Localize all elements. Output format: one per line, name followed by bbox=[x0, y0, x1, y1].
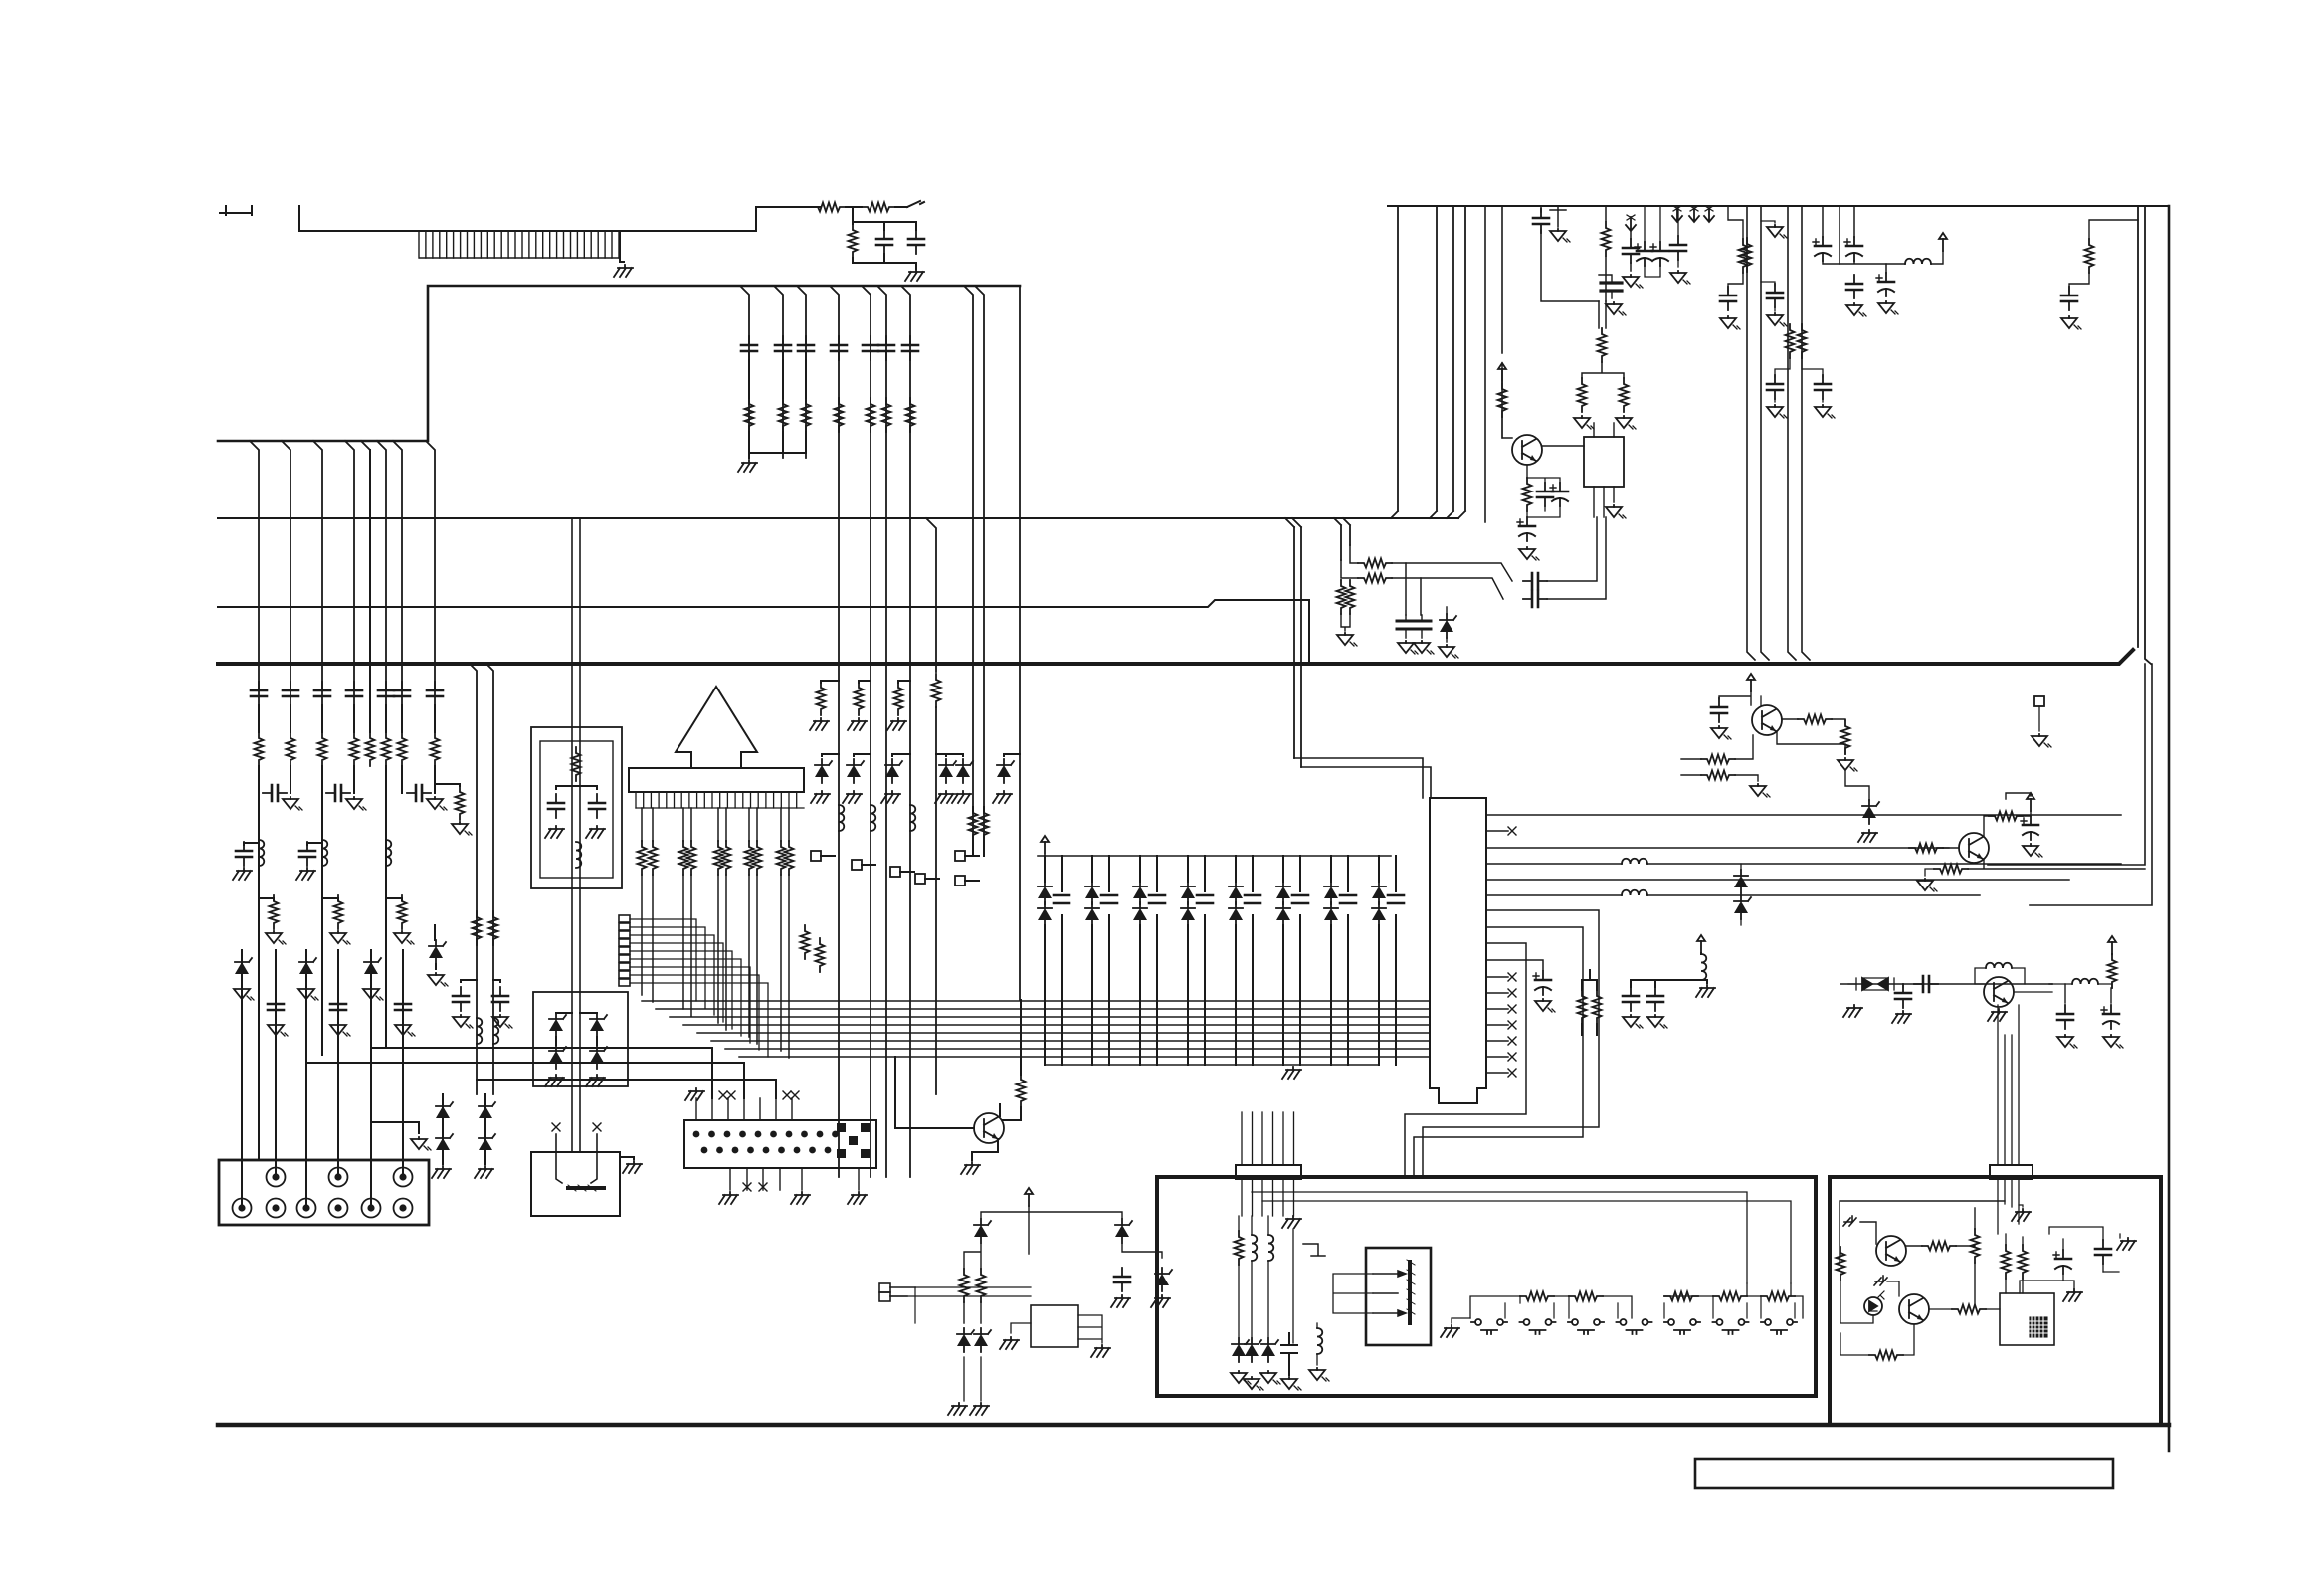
IC701 bbox=[1031, 1305, 1078, 1347]
diode col 6 bbox=[1282, 856, 1284, 1065]
ground GA D520 bbox=[1439, 645, 1458, 658]
BR rail bbox=[1840, 983, 2052, 985]
inductor L501 bbox=[1905, 259, 1931, 264]
wire colpair 1 bbox=[259, 766, 290, 793]
zener D201 bbox=[549, 1013, 566, 1037]
ground GA R604 bbox=[1750, 784, 1770, 797]
wire stub R123 bbox=[435, 784, 460, 786]
resistor R520 bbox=[1358, 559, 1392, 568]
capacitor C162 bbox=[878, 336, 894, 360]
diode D302a bbox=[1133, 881, 1147, 904]
capacitor C152 bbox=[798, 336, 814, 360]
capacitor C161 bbox=[863, 336, 878, 360]
zener D402 bbox=[1734, 895, 1751, 919]
inductor L105 bbox=[493, 1018, 498, 1044]
filter row1 bbox=[1350, 545, 1358, 563]
diode col 2 bbox=[1091, 856, 1093, 1065]
IC401 pin 7 bbox=[1423, 910, 1599, 1177]
resistor R185 bbox=[722, 841, 731, 875]
diode D303a bbox=[1181, 881, 1195, 904]
capacitor C603 bbox=[1895, 984, 1911, 1008]
switch S306 bbox=[1713, 1319, 1749, 1334]
diode D304a bbox=[1229, 881, 1243, 904]
resistor R150 bbox=[745, 398, 754, 432]
clusterA 1687 bbox=[1677, 206, 1679, 267]
D401 wires bbox=[1740, 864, 1742, 925]
capacitor C503 polarized bbox=[1635, 242, 1652, 266]
resistor R522 bbox=[1337, 580, 1346, 614]
ground GA zener 308 bbox=[298, 987, 318, 1000]
capacitor C126 bbox=[492, 987, 508, 1011]
zener D150 bbox=[436, 1132, 453, 1156]
filter row1b bbox=[1392, 563, 1512, 581]
wire thickline drop 496 bbox=[486, 664, 493, 1094]
resistor R307 bbox=[2019, 1245, 2028, 1279]
ground GA7 bbox=[394, 931, 414, 944]
L601 wires bbox=[1975, 968, 2052, 992]
wire stub C123 bbox=[244, 843, 259, 845]
ground chassis C124 bbox=[296, 868, 315, 880]
Q201 coll join bbox=[1003, 1107, 1021, 1120]
wire cap col 340 bbox=[337, 950, 339, 1177]
wire node A drop bbox=[853, 207, 916, 222]
bus net V1b bbox=[1334, 518, 1350, 560]
IC401 nc pin 4 bbox=[1486, 1040, 1508, 1042]
bus mid column drops B bbox=[831, 287, 910, 1177]
resistor R182 bbox=[679, 841, 688, 875]
cap stub 8 bbox=[1395, 856, 1397, 1065]
resistor R402 bbox=[1593, 990, 1602, 1024]
resistor R312 bbox=[1664, 1292, 1698, 1301]
capacitor C111 bbox=[283, 682, 298, 705]
zener D141 bbox=[479, 1100, 495, 1124]
capacitor C601 bbox=[1711, 698, 1727, 722]
ground chassis z897 bbox=[881, 791, 900, 803]
diode D306b bbox=[1324, 902, 1338, 926]
ground GA1 bbox=[283, 797, 302, 810]
zener D165 bbox=[997, 759, 1014, 783]
arrow nc b bbox=[1689, 206, 1699, 222]
ground chassis D704 bbox=[948, 1403, 967, 1415]
ground GA C502 bbox=[1623, 275, 1643, 288]
ground chassis D705 bbox=[970, 1403, 989, 1415]
ground chassis CN302 bbox=[2012, 1209, 2031, 1221]
zener D163 bbox=[939, 759, 956, 783]
diode box stubs bbox=[556, 1013, 597, 1045]
capacitor C511 bbox=[1767, 284, 1783, 307]
wire stub C125 bbox=[461, 980, 477, 982]
mechanism box1 bbox=[1157, 1177, 1816, 1396]
capacitor C130 bbox=[268, 995, 284, 1019]
resistor R161 bbox=[867, 398, 875, 432]
ground GA R607 bbox=[1917, 879, 1937, 891]
bus net V1 y=521 bbox=[218, 517, 1458, 519]
capacitor C125 bbox=[453, 987, 469, 1011]
connector J101 RCA block bbox=[219, 1160, 429, 1225]
Q301 wires bbox=[1840, 1201, 2005, 1262]
capacitor C304 bbox=[1245, 895, 1260, 903]
record head symbol bbox=[1373, 1260, 1415, 1323]
resistor R187 bbox=[753, 841, 762, 875]
capacitor C501 bbox=[1533, 209, 1549, 233]
zener D703 bbox=[1155, 1268, 1172, 1291]
capacitor C301 bbox=[1101, 895, 1117, 903]
switch S303 bbox=[1568, 1319, 1604, 1334]
ground GA C610 bbox=[2057, 1035, 2077, 1048]
connector CN101 comb bbox=[419, 230, 620, 232]
capacitor C114 bbox=[378, 682, 394, 705]
L602 net wires bbox=[2049, 984, 2111, 1003]
resistor R127 bbox=[473, 911, 482, 945]
keypad matrix box bbox=[684, 1120, 876, 1168]
ground chassis D703 bbox=[1151, 1295, 1170, 1307]
capacitor C151 bbox=[775, 336, 791, 360]
diode row bottom rail bbox=[1045, 1064, 1379, 1066]
capacitor C516 bbox=[1846, 275, 1862, 298]
resistor R172 bbox=[894, 682, 903, 715]
ground chassis head bbox=[623, 1161, 642, 1173]
capacitor C115 bbox=[394, 682, 410, 705]
harness lines bbox=[642, 1001, 1430, 1057]
ground chassis z858 bbox=[843, 791, 862, 803]
nested return 2 bbox=[2030, 664, 2152, 905]
resistor R304 bbox=[1837, 1247, 1845, 1280]
capacitor C504 polarized bbox=[1650, 242, 1668, 266]
tape head symbol bbox=[556, 1134, 604, 1191]
x-mark nc1 bbox=[719, 1091, 727, 1099]
ground GA R504 bbox=[1616, 416, 1636, 429]
IC401 nc pin 3 bbox=[1486, 1024, 1508, 1026]
x-mark nc6 bbox=[759, 1183, 767, 1191]
resistor R113 bbox=[350, 732, 359, 766]
IC201 pins bbox=[636, 792, 797, 808]
resistor R115 bbox=[382, 732, 391, 766]
cap stub 3 bbox=[1156, 856, 1158, 1065]
wire jack col 373 bbox=[370, 950, 372, 1208]
resistor R192 bbox=[1017, 1074, 1026, 1107]
ground chassis keypad B2 bbox=[791, 1192, 810, 1204]
keypad pins bottom bbox=[730, 1168, 859, 1190]
small ckt wires3 bbox=[964, 1244, 981, 1323]
ground GA C501t bbox=[1550, 229, 1570, 242]
ground chassis keypad B1 bbox=[719, 1192, 738, 1204]
ground GA zener 373 bbox=[363, 987, 383, 1000]
RCA jack bottom 2 bbox=[267, 1199, 286, 1218]
x-mark nc1 bbox=[1508, 989, 1516, 997]
IC401 nc pin 0 bbox=[1486, 976, 1508, 978]
ground GA R503 bbox=[1574, 416, 1594, 429]
x-mark nc5 bbox=[1508, 1053, 1516, 1061]
ground GA C401 bbox=[1535, 999, 1555, 1012]
ground GA3 bbox=[427, 797, 447, 810]
test point TP1 bbox=[811, 851, 821, 861]
IC501 wires bbox=[1594, 423, 1614, 517]
ground chassis IC701b bbox=[1000, 1337, 1019, 1349]
wire pair 978 cont bbox=[973, 807, 984, 856]
wire route 3 bbox=[477, 1080, 776, 1098]
resistor R201 bbox=[572, 747, 581, 781]
D601 wires bbox=[1845, 771, 1869, 800]
trap cap stubs bbox=[556, 786, 597, 789]
tape head box bbox=[531, 1152, 620, 1216]
harness left bends bbox=[642, 875, 739, 1057]
clusterA down pair bbox=[1599, 301, 1606, 328]
resistor R501 bbox=[1602, 222, 1611, 256]
capacitor C514 polarized bbox=[1813, 237, 1831, 261]
capacitor C602 polarized bbox=[2021, 816, 2038, 840]
ground GA C516 bbox=[1846, 303, 1866, 316]
ground chassis CN301 bbox=[1282, 1216, 1301, 1228]
IC401 pin 3 bbox=[1486, 847, 1949, 849]
IC401 pin 10 bbox=[1486, 960, 1543, 970]
resistor R186 bbox=[745, 841, 754, 875]
zener D133 bbox=[429, 940, 446, 964]
x-mark nc3 bbox=[1508, 1021, 1516, 1029]
Q201 base wire bbox=[895, 1057, 974, 1128]
clusterA down2 bbox=[1582, 362, 1624, 378]
ground chassis C201 bbox=[545, 826, 564, 838]
diode D305a bbox=[1276, 881, 1290, 904]
Q201 emitter bbox=[972, 1139, 998, 1160]
IC401 pin 1 bbox=[1486, 814, 2121, 816]
TP6 lead bbox=[965, 880, 979, 882]
wire stub C126 bbox=[493, 980, 500, 982]
resistor R314 bbox=[1761, 1292, 1795, 1301]
resistor R607 bbox=[1934, 865, 1968, 874]
arrow nc c bbox=[1704, 206, 1714, 222]
C603 wires bbox=[1902, 984, 1904, 987]
capacitor C124 bbox=[299, 842, 315, 866]
diode D401 bbox=[1734, 870, 1748, 893]
resistor R190 bbox=[801, 925, 810, 959]
TP5 lead bbox=[965, 855, 979, 857]
ground chassis ladder bbox=[1441, 1325, 1459, 1337]
ground fork 2 bbox=[1874, 1276, 1887, 1285]
ground chassis colsM bbox=[738, 460, 757, 472]
capacitor C122 bbox=[407, 785, 431, 801]
ground GA C506 bbox=[1606, 302, 1626, 315]
inductor L103 bbox=[386, 840, 391, 866]
inductor L102 bbox=[322, 840, 327, 866]
supply arrow VQ601 bbox=[1747, 674, 1755, 691]
1784 stub bbox=[1761, 221, 1775, 223]
ground chassis z968 bbox=[952, 791, 971, 803]
inductor L402 bbox=[1701, 954, 1706, 980]
supply arrow VD4 bbox=[2108, 936, 2116, 954]
ladder feed B bbox=[1790, 1283, 1792, 1296]
resistor R606 bbox=[1989, 812, 2023, 821]
ground GA C512 bbox=[1767, 405, 1787, 418]
capacitor C303 bbox=[2095, 1240, 2111, 1264]
capacitor C307 bbox=[1388, 895, 1404, 903]
ground GA C522 bbox=[1398, 641, 1418, 654]
small ckt wires2 bbox=[1029, 1212, 1162, 1258]
x-mark nc5 bbox=[743, 1183, 751, 1191]
ground GA C505 bbox=[1670, 271, 1690, 284]
x-mark nc6 bbox=[1508, 1069, 1516, 1077]
zener D520 bbox=[1440, 614, 1456, 638]
inductor Lp4 bbox=[1622, 859, 1647, 864]
ground GA cap 340 bbox=[330, 1023, 350, 1036]
wire stub C124 bbox=[307, 843, 322, 845]
wire stub res 903 bbox=[898, 681, 910, 683]
Q501 e-wires bbox=[1527, 478, 1560, 517]
resistor R180 bbox=[638, 841, 647, 875]
bus mid column drops A bbox=[741, 287, 806, 458]
capacitor C120 bbox=[263, 785, 287, 801]
resistor R603 bbox=[1701, 755, 1735, 764]
wire stub zener 968 bbox=[936, 754, 963, 756]
ground chassis z826 bbox=[811, 791, 830, 803]
capacitor C510 bbox=[1720, 287, 1736, 310]
ground GA cap 277 bbox=[268, 1023, 288, 1036]
resistor R126 bbox=[398, 895, 407, 929]
ground GA D301 bbox=[1231, 1371, 1251, 1384]
wire stub res 825 bbox=[821, 681, 839, 683]
capacitor C102 bbox=[908, 230, 924, 254]
IC701 wires bbox=[1011, 1315, 1102, 1343]
RCA jack top 1 bbox=[267, 1168, 286, 1187]
buffer bar IC201 bbox=[629, 768, 804, 792]
ground hook bbox=[1303, 1244, 1325, 1256]
CN301 route right A bbox=[1252, 1192, 1747, 1283]
capacitor C604 h bbox=[1914, 976, 1938, 992]
zener D164 bbox=[956, 759, 973, 783]
capacitor C101 bbox=[876, 230, 892, 254]
shield box inner bbox=[540, 741, 613, 878]
switch S301 bbox=[1471, 1319, 1507, 1334]
cap stub 6 bbox=[1299, 856, 1301, 1065]
bus net V1 branch bends bbox=[1285, 518, 1301, 527]
CN301 route right B bbox=[1262, 1201, 1791, 1283]
switch S304 bbox=[1617, 1319, 1652, 1334]
wire cap col 277 bbox=[275, 950, 277, 1177]
wire R102-switch bbox=[895, 206, 907, 208]
capacitor C518 bbox=[2061, 287, 2077, 310]
x-mark nc0 bbox=[1508, 973, 1516, 981]
IC401 pin 4 bbox=[1486, 863, 1622, 865]
RCA jack bottom 5 bbox=[362, 1199, 381, 1218]
ground GA C511 bbox=[1767, 313, 1787, 326]
LED D304 bbox=[1864, 1291, 1884, 1315]
diode D300a bbox=[1038, 881, 1052, 904]
Q601 top wires bbox=[1719, 691, 1751, 705]
small ckt rails bbox=[981, 1206, 1029, 1254]
zener D203 bbox=[549, 1045, 566, 1069]
cap stub 2 bbox=[1108, 856, 1110, 1065]
IC401 main processor bbox=[1430, 798, 1486, 1103]
capacitor C116 bbox=[427, 682, 443, 705]
supply arrow VD3 bbox=[1939, 233, 1947, 251]
x-mark nc3 bbox=[783, 1091, 791, 1099]
ladder gnd lead bbox=[1452, 1318, 1470, 1323]
ground chassis C102 bbox=[905, 269, 924, 281]
ground GA9 bbox=[492, 1015, 512, 1028]
switch S305 bbox=[1664, 1319, 1700, 1334]
TP1 lead bbox=[821, 855, 835, 857]
head wires bbox=[1333, 1274, 1373, 1313]
bus corners to top right bbox=[1391, 206, 1465, 518]
trap columns bbox=[572, 518, 580, 1152]
transistor Q501 bbox=[1512, 435, 1542, 465]
filter row1c bbox=[1547, 517, 1597, 581]
cap stub 5 bbox=[1252, 856, 1254, 1065]
title block bbox=[1695, 1459, 2113, 1488]
Q501 emitter down bbox=[1526, 465, 1528, 478]
Q601 emitter down bbox=[1777, 732, 1845, 754]
resistor R511 bbox=[2085, 239, 2094, 273]
bus right pair drop bbox=[965, 287, 984, 856]
diode D305b bbox=[1276, 902, 1290, 926]
IC501 box bbox=[1584, 437, 1624, 487]
capacitor C163 bbox=[902, 336, 918, 360]
ground GA C402 bbox=[1623, 1015, 1643, 1028]
clusterC cols bbox=[1823, 206, 1886, 273]
wire stub zener 951 bbox=[936, 754, 946, 756]
diode D307b bbox=[1372, 902, 1386, 926]
resistor R503 bbox=[1578, 378, 1587, 412]
wire gnd stub bbox=[371, 1122, 419, 1133]
cap stub 7 bbox=[1347, 856, 1349, 1065]
ground chassis BR2 bbox=[1892, 1011, 1911, 1023]
wire R103/C101/C102 bottom bbox=[853, 258, 916, 269]
wire main board outline bbox=[218, 286, 1020, 441]
inductor L108 bbox=[910, 805, 915, 831]
R302 wire bbox=[1956, 1208, 1975, 1246]
inductor L104 bbox=[477, 1018, 482, 1044]
resistor R508 bbox=[1743, 238, 1752, 272]
resistor R308 bbox=[1869, 1351, 1903, 1360]
ground chassis z951 bbox=[935, 791, 954, 803]
supply arrow VQ602 bbox=[2027, 793, 2034, 811]
ground GA C403 bbox=[1647, 1015, 1667, 1028]
Q501 wires bbox=[1502, 363, 1584, 446]
resistor R523 bbox=[1346, 580, 1355, 614]
resistor R305 bbox=[1952, 1305, 1986, 1314]
resistor R605 bbox=[1909, 844, 1943, 853]
Q601 c-wire bbox=[1782, 719, 1845, 720]
Q201 collector bbox=[1000, 1000, 1021, 1116]
zener D202 bbox=[590, 1013, 607, 1037]
resistor R189 bbox=[785, 841, 794, 875]
diode D300b bbox=[1038, 902, 1052, 926]
resistor R114 bbox=[366, 732, 375, 766]
head shield box bbox=[1366, 1248, 1431, 1345]
TR left cols bbox=[1747, 206, 1810, 660]
clusterC rail bbox=[1823, 261, 1905, 264]
R306 wires bbox=[2006, 1234, 2023, 1293]
ground chassis C303 bbox=[2117, 1238, 2136, 1250]
ground chassis C202 bbox=[586, 826, 605, 838]
TP7 lead bbox=[2038, 706, 2040, 731]
ground GA C602 bbox=[2023, 844, 2042, 857]
wire col324 down bbox=[321, 793, 323, 1055]
x-mark head1 bbox=[552, 1123, 560, 1131]
diode col 3 bbox=[1139, 856, 1141, 1065]
ground GA zener 438 bbox=[428, 973, 448, 986]
capacitor C502 bbox=[1623, 239, 1639, 263]
wire stub R126 bbox=[386, 898, 402, 900]
head gnd stub bbox=[620, 1157, 634, 1159]
diode col 1 bbox=[1044, 856, 1046, 1065]
filter drops bbox=[1406, 563, 1421, 615]
capacitor C305 bbox=[1292, 895, 1308, 903]
small ckt wires4 bbox=[964, 1357, 981, 1401]
resistor R191 bbox=[816, 938, 825, 972]
ground GA C523 bbox=[1414, 641, 1434, 654]
filter cap leads bbox=[1406, 615, 1422, 638]
ground GA R523 bbox=[1337, 633, 1357, 646]
